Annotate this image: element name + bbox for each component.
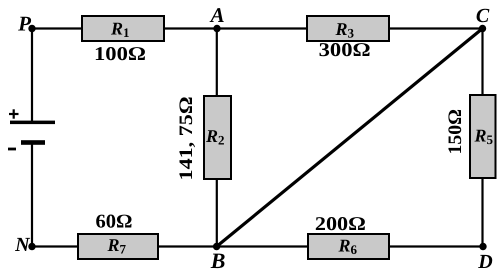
svg-text:A: A — [209, 3, 225, 27]
svg-text:150Ω: 150Ω — [445, 109, 466, 155]
svg-text:N: N — [14, 234, 31, 256]
svg-text:B: B — [210, 248, 226, 271]
svg-text:100Ω: 100Ω — [94, 44, 146, 65]
svg-text:200Ω: 200Ω — [315, 214, 366, 235]
svg-text:P: P — [17, 12, 31, 36]
svg-text:300Ω: 300Ω — [319, 40, 371, 61]
svg-text:60Ω: 60Ω — [96, 212, 133, 233]
svg-text:C: C — [476, 5, 490, 27]
svg-text:D: D — [477, 251, 492, 271]
svg-text:141, 75Ω: 141, 75Ω — [176, 97, 197, 181]
